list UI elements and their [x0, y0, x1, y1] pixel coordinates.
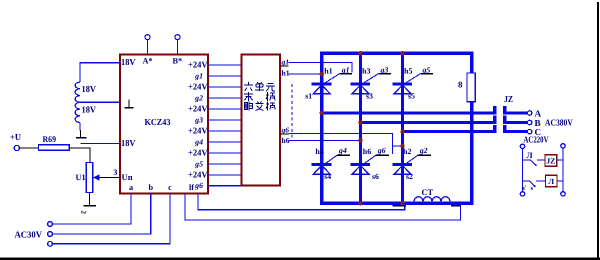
svg-text:KCZ43: KCZ43 [145, 117, 171, 127]
wire board h1 to SCR V1 cathode [289, 73, 320, 75]
label chu fa ban [244, 102, 253, 111]
svg-text:g4: g4 [338, 146, 347, 155]
svg-text:Л: Л [527, 151, 533, 160]
svg-text:h6: h6 [363, 147, 371, 156]
terminal AC30V 1 [48, 222, 53, 227]
terminal B [527, 120, 531, 124]
wiper arrow of U1 [93, 174, 99, 181]
thyristor V3 [351, 83, 371, 86]
junction column2 bottom bus [358, 201, 362, 205]
svg-text:g1: g1 [194, 71, 203, 80]
wire phase C from column3 [403, 130, 497, 133]
wire relay right rail [562, 148, 564, 192]
junction phase B column2 [358, 120, 362, 124]
svg-text:18V: 18V [121, 57, 136, 67]
wire L coil to right rail [557, 180, 563, 182]
resistor R69 [39, 145, 70, 151]
resistor R8 [467, 73, 475, 102]
junction column2 top bus [358, 51, 362, 55]
wire winding bottom [79, 123, 81, 131]
wire bridge leg column 2 [359, 53, 362, 203]
label mo ji [244, 92, 253, 101]
svg-text:Л: Л [548, 177, 554, 186]
svg-text:g2: g2 [419, 146, 428, 155]
wire right side with R8 [470, 53, 473, 203]
svg-text:h4: h4 [315, 147, 323, 156]
wire branch to V2 cathode [393, 145, 401, 147]
svg-text:s4: s4 [324, 172, 331, 181]
contact JZ phase B right blade [503, 116, 506, 124]
wire contact to terminal A [503, 111, 527, 114]
wire AC30V 1 to pin a [52, 194, 131, 225]
svg-text:g1: g1 [341, 66, 350, 75]
svg-text:h6: h6 [282, 136, 290, 145]
svg-text:18V: 18V [82, 84, 97, 94]
svg-text:b: b [149, 183, 154, 192]
wire phase B from column2 [361, 121, 497, 124]
terminal +U [14, 145, 19, 150]
junction column3 bottom bus [400, 201, 404, 205]
wire B* terminal [177, 40, 179, 55]
terminal bottom right [561, 192, 565, 196]
svg-text:+U: +U [10, 132, 21, 142]
wire KCZ43 pin 4 to trigger board [208, 97, 242, 99]
thyristor V1 [312, 83, 332, 86]
svg-text:AC30V: AC30V [15, 229, 43, 239]
junction h2 on column3 [400, 144, 404, 148]
svg-text:s': s' [531, 185, 536, 192]
terminal AC220V top right [561, 144, 565, 148]
wire JZ coil to right rail [557, 159, 563, 161]
thyristor V2 [393, 163, 413, 166]
transformer T1 winding W2 18V [75, 102, 80, 122]
relay coil L [546, 175, 558, 187]
svg-text:+24V: +24V [188, 170, 208, 180]
terminal A [527, 111, 531, 115]
contact in L branch [523, 180, 530, 182]
contact JZ phase A right blade [503, 106, 506, 114]
svg-text:g6: g6 [281, 126, 290, 135]
wire bridge leg column 3 [401, 53, 404, 203]
junction h6 on column2 [358, 138, 362, 142]
relay coil JZ [545, 155, 557, 167]
svg-text:A: A [535, 108, 542, 118]
wire AC30V 3 to pin c [52, 194, 170, 244]
ground transformer winding [76, 137, 87, 139]
svg-text:JZ: JZ [504, 94, 513, 104]
svg-text:+24V: +24V [188, 126, 208, 136]
current transformer CT [414, 197, 450, 202]
thyristor V5 [393, 83, 413, 86]
ground pot bottom [84, 205, 96, 207]
svg-text:s2: s2 [406, 172, 413, 181]
svg-text:g6: g6 [194, 181, 203, 190]
junction column3 top bus [400, 51, 404, 55]
label liu dan yuan [244, 82, 253, 91]
thyristor V4 [312, 163, 332, 166]
wire wiper to KC pin Un [100, 177, 120, 179]
wire AC30V 2 to pin b [52, 194, 150, 235]
wire KCZ43 pin 8 to trigger board [208, 141, 242, 143]
wire KCZ43 pin 10 to trigger board [208, 163, 242, 165]
wire KCZ43 pin 7 to trigger board [208, 130, 242, 132]
svg-text:Un: Un [122, 172, 133, 182]
terminal AC30V 2 [48, 232, 53, 237]
wire A* terminal [147, 40, 149, 55]
svg-text:lf: lf [189, 183, 194, 192]
terminal B* [175, 35, 180, 40]
potentiometer U1 [86, 163, 92, 193]
wire 18V bottom pin [81, 143, 121, 145]
wire contact to terminal B [503, 121, 527, 124]
thyristor V6 [351, 163, 371, 166]
svg-text:AC380V: AC380V [545, 118, 573, 128]
wire KCZ43 pin 5 to trigger board [208, 108, 242, 110]
wire board lower g output [289, 134, 393, 154]
svg-text:h1: h1 [324, 67, 332, 76]
scan border bottom edge [0, 258, 600, 260]
wire KCZ43 pin 3 to trigger board [208, 86, 242, 88]
svg-text:A*: A* [142, 57, 152, 66]
wire phase A from column1 [322, 111, 497, 114]
wire board g1 to SCR V1 gate [289, 62, 353, 72]
contact L in JZ branch [523, 159, 531, 161]
svg-text:18V: 18V [121, 138, 136, 148]
wire transformer centre tap to KC box [80, 101, 120, 103]
svg-text:U1: U1 [76, 173, 86, 182]
dashed line omitted trigger wires [291, 84, 293, 138]
svg-text:2: 2 [80, 211, 88, 215]
svg-text:8: 8 [458, 80, 463, 90]
wire KCZ43 pin 1 to trigger board [208, 64, 242, 66]
transformer T1 winding W1 18V [80, 63, 120, 82]
junction h1 on column1 [320, 72, 324, 76]
terminal bottom left [520, 192, 524, 196]
svg-text:CT: CT [422, 188, 434, 197]
contact JZ phase B left blade [493, 116, 496, 124]
svg-text:g3: g3 [194, 115, 203, 124]
wire DC positive bus [320, 52, 474, 55]
wire KCZ43 pin 11 to trigger board [208, 174, 242, 176]
junction phase C column3 [400, 129, 404, 133]
svg-text:B*: B* [172, 57, 182, 66]
wire lf feedback lower [185, 194, 461, 220]
svg-text:+24V: +24V [188, 60, 208, 70]
svg-text:3: 3 [113, 168, 117, 177]
svg-text:a': a' [522, 185, 527, 192]
svg-text:g4: g4 [194, 137, 203, 146]
svg-text:g3: g3 [380, 66, 389, 75]
wire KCZ43 pin 6 to trigger board [208, 119, 242, 121]
svg-text:AC220V: AC220V [524, 135, 549, 145]
CT terminal mark left [393, 205, 407, 207]
svg-text:18V: 18V [82, 105, 97, 115]
ground symbol inside KCZ43 [128, 100, 130, 108]
wire lf feedback upper [198, 194, 405, 210]
svg-text:+24V: +24V [188, 82, 208, 92]
svg-text:s6: s6 [372, 172, 379, 181]
CT terminal mark right [451, 205, 461, 207]
svg-text:R69: R69 [43, 134, 57, 144]
svg-text:h1: h1 [282, 69, 290, 78]
svg-text:s1: s1 [305, 91, 312, 100]
svg-text:g5: g5 [194, 159, 203, 168]
scan border right edge [597, 2, 599, 260]
junction phase A column1 [320, 111, 324, 115]
svg-text:h2: h2 [403, 147, 411, 156]
wire +U to R69 [19, 147, 38, 149]
contact JZ phase A left blade [493, 106, 496, 114]
wire bridge leg column 1 [320, 52, 323, 205]
module six-unit final trigger board [242, 55, 281, 186]
svg-text:g6: g6 [377, 146, 386, 155]
wire KCZ43 pin 12 to trigger board [208, 185, 242, 187]
terminal C [527, 129, 531, 133]
contact JZ phase C right blade [503, 125, 506, 133]
svg-text:c: c [168, 183, 172, 192]
svg-text:JZ: JZ [546, 156, 555, 165]
svg-text:a: a [129, 183, 133, 192]
IC U-KCZ43 trigger box [120, 55, 208, 194]
svg-text:h3: h3 [362, 67, 370, 76]
svg-text:s3: s3 [366, 91, 373, 100]
wire KCZ43 pin 2 to trigger board [208, 75, 242, 77]
contact JZ phase C left blade [493, 125, 496, 133]
svg-text:+24V: +24V [188, 104, 208, 114]
wire contact to terminal C [503, 130, 527, 133]
svg-text:+24V: +24V [188, 148, 208, 158]
terminal AC30V 3 [48, 241, 53, 246]
wire board lower h output to V6 cathode [289, 140, 359, 142]
wire relay left rail [522, 149, 524, 192]
svg-text:s5: s5 [408, 91, 415, 100]
terminal AC220V top left [520, 144, 524, 148]
wire R69 to potentiometer [69, 148, 90, 163]
wire potentiometer bottom [88, 193, 90, 206]
svg-text:g2: g2 [194, 93, 203, 102]
wire DC negative bus [320, 202, 474, 205]
wire KCZ43 pin 9 to trigger board [208, 152, 242, 154]
terminal A* [145, 35, 150, 40]
svg-text:g1: g1 [281, 58, 290, 67]
svg-text:h5: h5 [404, 67, 412, 76]
svg-text:g5: g5 [422, 66, 431, 75]
